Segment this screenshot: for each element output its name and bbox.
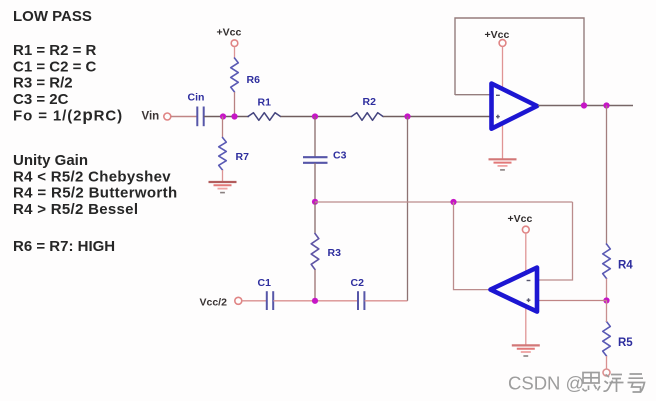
capacitor C1	[266, 291, 268, 310]
note: design equations	[13, 42, 123, 124]
wire Vcc/2 to C1	[242, 300, 267, 302]
svg-text:C1 = C2 = C: C1 = C2 = C	[13, 58, 97, 75]
wire U2 power and ground lead	[525, 233, 527, 345]
op-amp U1	[492, 84, 538, 129]
svg-text:R4: R4	[618, 260, 633, 272]
terminal Vin	[164, 113, 171, 120]
junction node C	[312, 199, 318, 205]
wire R1 to node A	[281, 116, 352, 118]
ground below R7	[209, 181, 237, 183]
wire U2 feedback right side	[539, 202, 573, 280]
junction U2 output tap	[450, 199, 456, 205]
svg-text:Vcc/2: Vcc/2	[200, 297, 228, 309]
terminal +Vcc (U2)	[522, 226, 529, 233]
svg-text:C2: C2	[351, 277, 365, 289]
resistor R6	[231, 58, 239, 92]
pin marker U1 minus	[496, 94, 500, 96]
pin marker U2 plus	[527, 299, 531, 301]
wire C1 to node D	[273, 300, 358, 302]
ground U2	[512, 344, 540, 346]
resistor R3	[311, 234, 319, 270]
wire R3 down to node D	[314, 270, 316, 301]
svg-text:R4 < R5/2 Chebyshev: R4 < R5/2 Chebyshev	[13, 168, 171, 185]
pin marker U2 minus	[527, 280, 531, 282]
svg-text:Unity Gain: Unity Gain	[13, 152, 88, 169]
resistor R1	[248, 113, 281, 121]
terminal Vcc/2	[235, 297, 242, 304]
svg-text:C1: C1	[258, 277, 272, 289]
resistor R4	[603, 244, 611, 279]
wire Cin to node	[204, 116, 249, 118]
wire R6 to node	[234, 92, 236, 117]
svg-text:R1 = R2 = R: R1 = R2 = R	[13, 42, 97, 59]
svg-text:R1: R1	[258, 97, 272, 109]
wire U1 output	[538, 105, 633, 107]
junction node A	[312, 113, 318, 119]
terminal +Vcc (R6)	[231, 40, 238, 47]
terminal bottom of R5	[603, 369, 610, 376]
svg-text:R6 = R7: HIGH: R6 = R7: HIGH	[13, 238, 115, 255]
wire output down to R4	[606, 106, 608, 246]
wire R7 to ground	[222, 170, 224, 181]
capacitor C2	[357, 291, 359, 310]
wire U2 output riser	[454, 202, 490, 290]
junction R6 node	[231, 113, 237, 119]
junction node B	[404, 113, 410, 119]
capacitor C3	[303, 156, 328, 158]
wire down to R7	[222, 117, 224, 139]
pin marker U1 plus	[496, 116, 500, 118]
watermark chinese characters (hand-drawn)	[583, 373, 645, 393]
junction output node	[603, 102, 609, 108]
wire U1 inverting input stub	[455, 94, 492, 96]
junction U1 feedback tap	[581, 102, 587, 108]
svg-text:LOW PASS: LOW PASS	[13, 8, 92, 25]
wire riser to node B	[407, 117, 409, 301]
wire U2 noninverting input to node E	[539, 300, 607, 302]
junction node E	[603, 297, 609, 303]
svg-text:CSDN @: CSDN @	[508, 373, 584, 394]
op-amp U2	[491, 268, 538, 312]
wire R5 to bottom terminal	[606, 356, 608, 369]
svg-text:R6: R6	[247, 74, 261, 86]
resistor R2	[352, 113, 384, 121]
svg-text:+Vcc: +Vcc	[217, 27, 242, 39]
wire R2 to op-amp U1	[383, 116, 492, 118]
svg-text:Cin: Cin	[188, 92, 205, 104]
terminal +Vcc (U1)	[499, 40, 506, 47]
wire C2 to riser	[365, 300, 408, 302]
wire node C down to R3	[314, 202, 316, 234]
note: unity gain responses	[13, 152, 177, 218]
resistor R5	[603, 322, 611, 357]
wire C3 down to node C	[314, 163, 316, 202]
wire R4 to node E	[606, 279, 608, 301]
svg-text:R7: R7	[236, 151, 250, 163]
svg-text:+Vcc: +Vcc	[485, 29, 510, 41]
wire Vcc to R6	[234, 47, 236, 60]
resistor R7	[219, 138, 227, 170]
wire U1 power and ground lead	[502, 47, 504, 159]
wire node C to U2 feedback top	[315, 201, 573, 203]
wire feedback box U1	[455, 18, 584, 106]
svg-text:Vin: Vin	[142, 111, 160, 123]
svg-text:R4 = R5/2 Butterworth: R4 = R5/2 Butterworth	[13, 185, 177, 202]
wire node E to R5	[606, 301, 608, 323]
svg-text:R3 = R/2: R3 = R/2	[13, 75, 73, 92]
svg-text:R2: R2	[363, 96, 377, 108]
junction R7 node	[220, 113, 226, 119]
ground U1	[489, 158, 517, 160]
svg-text:+Vcc: +Vcc	[508, 213, 533, 225]
svg-text:R5: R5	[618, 337, 633, 349]
wire Vin to Cin	[171, 116, 197, 118]
svg-text:R3: R3	[328, 247, 342, 259]
svg-text:C3 = 2C: C3 = 2C	[13, 91, 69, 108]
junction node D	[312, 298, 318, 304]
capacitor Cin	[196, 107, 198, 127]
svg-text:Fo = 1/(2pRC): Fo = 1/(2pRC)	[13, 105, 123, 124]
svg-text:R4 > R5/2 Bessel: R4 > R5/2 Bessel	[13, 201, 138, 218]
svg-text:C3: C3	[333, 150, 347, 162]
wire node A down to C3	[314, 117, 316, 158]
